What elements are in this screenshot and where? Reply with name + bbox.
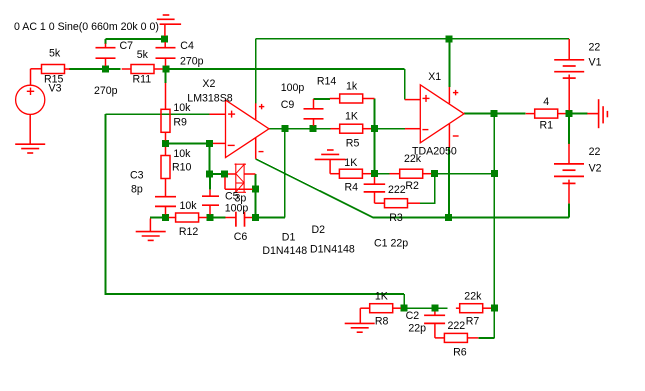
svg-text:22k: 22k	[464, 291, 482, 303]
svg-text:R3: R3	[389, 212, 403, 224]
svg-text:100p: 100p	[281, 82, 305, 94]
svg-text:R5: R5	[346, 138, 360, 150]
svg-text:10k: 10k	[173, 102, 191, 114]
svg-text:R10: R10	[172, 162, 192, 174]
svg-text:R8: R8	[375, 316, 389, 328]
svg-text:0 AC 1 0 Sine(0 660m 20k 0 0): 0 AC 1 0 Sine(0 660m 20k 0 0)	[14, 21, 159, 33]
svg-text:D1: D1	[282, 232, 296, 244]
svg-text:5k: 5k	[137, 49, 149, 61]
svg-text:R12: R12	[179, 226, 199, 238]
svg-text:5k: 5k	[49, 48, 61, 60]
svg-text:TDA2050: TDA2050	[412, 146, 457, 158]
svg-text:X1: X1	[428, 71, 441, 83]
svg-text:22p: 22p	[408, 323, 426, 335]
svg-text:D1N4148: D1N4148	[310, 243, 355, 255]
svg-text:C1 22p: C1 22p	[374, 237, 408, 249]
svg-text:22: 22	[589, 146, 601, 158]
svg-text:LM318S8: LM318S8	[187, 93, 232, 105]
svg-text:4: 4	[543, 96, 549, 108]
svg-text:V3: V3	[49, 82, 62, 94]
svg-text:C9: C9	[281, 99, 295, 111]
svg-text:R2: R2	[405, 180, 419, 192]
svg-text:270p: 270p	[180, 56, 204, 68]
svg-text:22: 22	[589, 41, 601, 53]
svg-text:R14: R14	[317, 76, 337, 88]
svg-text:1k: 1k	[346, 81, 358, 93]
svg-text:R6: R6	[453, 346, 467, 358]
svg-text:1K: 1K	[375, 291, 388, 303]
svg-text:C6: C6	[234, 231, 248, 243]
svg-text:1K: 1K	[344, 157, 357, 169]
svg-text:10k: 10k	[173, 148, 191, 160]
svg-text:222: 222	[448, 320, 466, 332]
svg-text:C3: C3	[130, 169, 144, 181]
svg-text:V1: V1	[589, 56, 602, 68]
svg-text:R1: R1	[540, 120, 554, 132]
svg-text:10k: 10k	[180, 200, 198, 212]
svg-text:222: 222	[388, 184, 406, 196]
svg-text:100p: 100p	[225, 203, 249, 215]
svg-text:X2: X2	[202, 78, 215, 90]
svg-text:1K: 1K	[345, 111, 358, 123]
svg-text:R7: R7	[466, 316, 480, 328]
svg-text:8p: 8p	[131, 184, 143, 196]
svg-text:C7: C7	[120, 40, 134, 52]
svg-text:R11: R11	[133, 74, 152, 86]
svg-text:V2: V2	[589, 163, 602, 175]
svg-text:C2: C2	[406, 310, 420, 322]
svg-text:D2: D2	[312, 224, 326, 236]
svg-text:R9: R9	[173, 117, 187, 129]
svg-text:C4: C4	[180, 40, 194, 52]
svg-text:R4: R4	[345, 182, 359, 194]
svg-text:270p: 270p	[94, 85, 118, 97]
svg-text:D1N4148: D1N4148	[262, 245, 307, 257]
